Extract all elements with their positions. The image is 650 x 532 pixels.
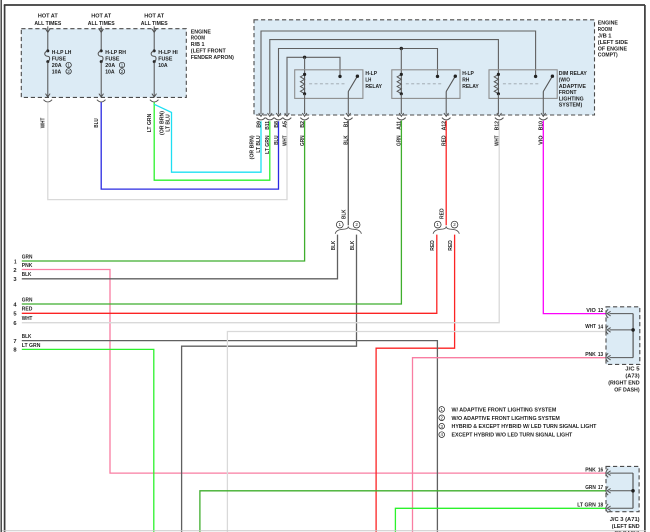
svg-text:RED: RED bbox=[448, 240, 454, 251]
svg-text:COMPT): COMPT) bbox=[598, 53, 618, 59]
svg-text:(LEFT FRONT: (LEFT FRONT bbox=[191, 49, 226, 55]
svg-text:ADAPTIVE: ADAPTIVE bbox=[559, 84, 586, 90]
fuse H-LP RH bbox=[97, 26, 126, 102]
svg-text:GRN: GRN bbox=[22, 297, 33, 303]
wire bus from pin B11 to DIM relay coil bbox=[270, 40, 499, 114]
relay DIM RELAY bbox=[489, 70, 587, 114]
svg-text:(W/O: (W/O bbox=[559, 78, 571, 84]
svg-text:ENGINE: ENGINE bbox=[191, 29, 211, 35]
svg-text:PNK: PNK bbox=[585, 352, 596, 358]
svg-text:14: 14 bbox=[598, 324, 603, 330]
splice of RED wire bbox=[434, 221, 441, 228]
relay H-LP LH RELAY bbox=[295, 70, 382, 114]
wire WHT to J/C 5 pin 14 routed from bottom bbox=[227, 332, 606, 532]
wire PNK from connector pin 2 to J/C 3 pin 16 bbox=[22, 270, 607, 474]
svg-text:2: 2 bbox=[453, 222, 456, 227]
svg-text:RELAY: RELAY bbox=[462, 84, 479, 90]
engine room J/B 1 box bbox=[254, 20, 595, 115]
engine room R/B 1 box bbox=[21, 29, 186, 98]
svg-text:BLK: BLK bbox=[350, 240, 356, 250]
svg-text:FUSE: FUSE bbox=[158, 57, 172, 63]
svg-text:WHT: WHT bbox=[41, 117, 47, 128]
svg-text:SYSTEM): SYSTEM) bbox=[559, 103, 582, 109]
J/C 3 internal bar bbox=[632, 473, 634, 508]
wire LT BLU branch to J/B pin B9 bbox=[154, 104, 261, 172]
page border frame bbox=[4, 5, 6, 532]
splice of BLK wire bbox=[336, 221, 343, 228]
svg-text:(RIGHT END: (RIGHT END bbox=[608, 380, 639, 386]
fuse H-LP HI bbox=[150, 26, 178, 102]
svg-text:13: 13 bbox=[598, 352, 603, 358]
pin B12 of J/B bbox=[495, 113, 504, 146]
svg-text:H-LP RH: H-LP RH bbox=[105, 50, 126, 56]
wire bus from pin B8 to H-LP RH relay bbox=[279, 49, 438, 115]
svg-text:PNK: PNK bbox=[22, 263, 33, 269]
svg-text:WHT: WHT bbox=[282, 135, 288, 146]
pin 16 of J/C 3 (PNK) bbox=[585, 467, 633, 477]
svg-text:10A: 10A bbox=[52, 69, 62, 75]
svg-text:ENGINE: ENGINE bbox=[598, 21, 618, 27]
svg-text:HYBRID & EXCEPT HYBRID W/ LED: HYBRID & EXCEPT HYBRID W/ LED TURN SIGNA… bbox=[452, 424, 597, 430]
node DIM relay switch contact bbox=[534, 75, 537, 78]
svg-text:ALL TIMES: ALL TIMES bbox=[141, 21, 168, 27]
wire WHT from H-LP LH fuse to J/B pin A5 bbox=[48, 102, 287, 199]
svg-text:B8: B8 bbox=[274, 120, 280, 127]
svg-text:LT GRN: LT GRN bbox=[577, 503, 596, 509]
wire drop to H-LP LH coil top bbox=[304, 57, 306, 73]
svg-text:(A73): (A73) bbox=[625, 373, 639, 379]
svg-text:20A: 20A bbox=[105, 63, 116, 69]
wire PNK from J/C 5 pin 13 routed to bottom bbox=[413, 358, 607, 532]
wire VIO from pin B10 to J/C 5 pin 12 bbox=[543, 121, 606, 314]
wire WHT from pin B12 to connector pin 6 bbox=[22, 121, 499, 323]
pin B10 of J/B bbox=[539, 113, 548, 145]
legend note 1 bbox=[439, 407, 445, 413]
wire GRN from pin B2 to connector pin 1 bbox=[22, 121, 305, 261]
junction connector J/C 5 (A73) bbox=[606, 307, 640, 365]
svg-text:10A: 10A bbox=[105, 69, 115, 75]
svg-text:RED: RED bbox=[430, 240, 436, 251]
node bus junction above H-LP LH coil bbox=[303, 56, 306, 59]
svg-text:EXCEPT HYBRID W/O LED TURN SIG: EXCEPT HYBRID W/O LED TURN SIGNAL LIGHT bbox=[452, 433, 573, 439]
wire GRN from pin A11 to connector pin 4 bbox=[22, 121, 402, 304]
svg-text:(OR BRN): (OR BRN) bbox=[159, 111, 165, 135]
wire BLU from H-LP RH fuse to J/B pin B8 bbox=[101, 102, 278, 189]
pin 12 of J/C 5 (VIO) bbox=[586, 308, 633, 318]
svg-text:LT GRN: LT GRN bbox=[22, 343, 41, 349]
svg-text:H-LP: H-LP bbox=[462, 71, 474, 77]
svg-text:(OR BRN): (OR BRN) bbox=[250, 135, 256, 159]
wire drop to H-LP RH coil top bbox=[400, 49, 402, 74]
svg-text:FRONT: FRONT bbox=[559, 90, 577, 96]
svg-text:1: 1 bbox=[436, 222, 439, 227]
svg-text:W/ ADAPTIVE FRONT LIGHTING SYS: W/ ADAPTIVE FRONT LIGHTING SYSTEM bbox=[452, 407, 557, 413]
svg-text:12: 12 bbox=[598, 308, 603, 314]
svg-text:PNK: PNK bbox=[585, 467, 596, 473]
svg-text:H-LP: H-LP bbox=[365, 71, 377, 77]
svg-text:ROOM: ROOM bbox=[598, 27, 612, 33]
wire BLK branch 1 to connector pin 3 bbox=[22, 235, 338, 279]
svg-text:LIGHTING: LIGHTING bbox=[559, 96, 584, 102]
svg-text:ALL TIMES: ALL TIMES bbox=[88, 21, 115, 27]
wire LT GRN from H-LP HI fuse to J/B pin B11 bbox=[154, 102, 270, 180]
fuse H-LP LH bbox=[44, 26, 72, 102]
svg-text:GRN: GRN bbox=[22, 254, 33, 260]
svg-text:OF DASH): OF DASH) bbox=[614, 387, 639, 393]
junction connector J/C 3 (A71) bbox=[606, 466, 639, 511]
wire BLK branch 2 routed to bottom bbox=[182, 235, 357, 532]
svg-text:LT GRN: LT GRN bbox=[147, 114, 153, 133]
legend note 2 bbox=[439, 415, 445, 421]
svg-text:J/B 1: J/B 1 bbox=[598, 34, 612, 40]
relay H-LP RH RELAY bbox=[392, 70, 479, 114]
svg-text:H-LP LH: H-LP LH bbox=[52, 50, 72, 56]
svg-text:LH: LH bbox=[365, 78, 371, 84]
node bus junction above H-LP RH coil bbox=[400, 47, 403, 50]
svg-text:HOT AT: HOT AT bbox=[38, 14, 58, 20]
node H-LP RH relay switch contact bbox=[436, 75, 439, 78]
wire RED from pin A12 upper segment bbox=[445, 121, 447, 226]
pin A5 of J/B bbox=[282, 113, 291, 146]
svg-text:HOT AT: HOT AT bbox=[144, 14, 164, 20]
wire RED branch 2 routed to bottom bbox=[376, 235, 455, 532]
legend note 3 bbox=[439, 423, 445, 429]
node H-LP LH relay switch contact bbox=[338, 75, 341, 78]
pin 13 of J/C 5 (PNK) bbox=[585, 352, 633, 362]
svg-text:17: 17 bbox=[598, 485, 603, 491]
svg-text:B11: B11 bbox=[265, 120, 271, 129]
node J/C 3 bar junction bbox=[631, 489, 635, 493]
svg-text:LT GRN: LT GRN bbox=[265, 135, 271, 154]
svg-text:BLK: BLK bbox=[22, 272, 32, 278]
pin A12 of J/B bbox=[442, 113, 451, 146]
svg-text:FENDER APRON): FENDER APRON) bbox=[191, 55, 234, 61]
pin B9 of J/B bbox=[256, 113, 265, 128]
svg-text:2: 2 bbox=[355, 222, 358, 227]
legend note 4 bbox=[439, 432, 445, 438]
svg-text:BLK: BLK bbox=[331, 240, 337, 250]
svg-text:J/C 5: J/C 5 bbox=[625, 366, 640, 372]
svg-text:18: 18 bbox=[598, 503, 603, 509]
svg-text:BLU: BLU bbox=[274, 135, 280, 145]
svg-text:1: 1 bbox=[339, 222, 342, 227]
svg-text:BLK: BLK bbox=[22, 334, 32, 340]
svg-text:RELAY: RELAY bbox=[365, 84, 382, 90]
svg-text:VIO: VIO bbox=[586, 308, 596, 314]
pin B2 of J/B bbox=[300, 113, 309, 146]
svg-text:LT BLU: LT BLU bbox=[256, 135, 262, 152]
svg-text:FUSE: FUSE bbox=[105, 57, 119, 63]
svg-text:(LEFT END: (LEFT END bbox=[612, 524, 640, 530]
svg-text:LT BLU: LT BLU bbox=[166, 114, 172, 131]
pin A11 of J/B bbox=[397, 113, 406, 146]
svg-text:W/O ADAPTIVE FRONT LIGHTING SY: W/O ADAPTIVE FRONT LIGHTING SYSTEM bbox=[452, 416, 560, 422]
svg-text:FUSE: FUSE bbox=[52, 57, 66, 63]
svg-text:A5: A5 bbox=[282, 120, 288, 127]
bottom scan line bbox=[2, 530, 646, 532]
svg-text:20A: 20A bbox=[52, 63, 63, 69]
svg-text:RH: RH bbox=[462, 78, 469, 84]
svg-text:RED: RED bbox=[440, 208, 446, 219]
wire GRN from J/C 3 pin 17 routed to bottom bbox=[200, 491, 607, 532]
svg-text:DIM RELAY: DIM RELAY bbox=[559, 71, 587, 77]
pin 14 of J/C 5 (WHT) bbox=[585, 324, 633, 334]
svg-text:BLK: BLK bbox=[342, 209, 348, 219]
wire BLK from pin B1 upper segment bbox=[347, 121, 349, 226]
wire bus from pin B9 to DIM relay switch contact bbox=[261, 31, 536, 114]
wire RED branch 1 to connector pin 5 bbox=[22, 235, 437, 314]
svg-text:ALL TIMES: ALL TIMES bbox=[34, 21, 61, 27]
svg-text:BLU: BLU bbox=[94, 118, 100, 128]
pin B8 of J/B bbox=[274, 113, 283, 145]
svg-text:16: 16 bbox=[598, 468, 603, 474]
wire LT GRN from J/C 3 pin 18 routed to bottom bbox=[395, 508, 606, 532]
svg-text:WHT: WHT bbox=[585, 324, 596, 330]
svg-text:(LEFT SIDE: (LEFT SIDE bbox=[598, 40, 628, 46]
svg-text:ROOM: ROOM bbox=[191, 36, 205, 42]
svg-text:R/B 1: R/B 1 bbox=[191, 42, 205, 48]
J/C 5 internal bar bbox=[632, 314, 634, 358]
svg-text:HOT AT: HOT AT bbox=[91, 14, 111, 20]
svg-text:H-LP HI: H-LP HI bbox=[158, 50, 178, 56]
svg-text:RED: RED bbox=[22, 307, 33, 313]
pin B1 of J/B bbox=[344, 113, 353, 145]
svg-text:10A: 10A bbox=[158, 63, 168, 69]
wire LT GRN connector pin 8 routed to bottom bbox=[22, 349, 154, 532]
pin 17 of J/C 3 (GRN) bbox=[585, 485, 633, 495]
svg-text:B9: B9 bbox=[256, 120, 262, 127]
pin B11 of J/B bbox=[265, 113, 274, 154]
svg-text:GRN: GRN bbox=[585, 485, 596, 491]
svg-text:WHT: WHT bbox=[22, 316, 33, 322]
wire bus from pin A5 to H-LP LH relay bbox=[287, 57, 340, 114]
pin 18 of J/C 3 (LT GRN) bbox=[577, 503, 633, 513]
node J/C 5 bar junction bbox=[631, 328, 635, 332]
svg-text:J/C 3 (A71): J/C 3 (A71) bbox=[610, 517, 640, 523]
wire BLK connector pin 7 routed to bottom bbox=[22, 341, 438, 532]
svg-text:OF ENGINE: OF ENGINE bbox=[598, 46, 627, 52]
